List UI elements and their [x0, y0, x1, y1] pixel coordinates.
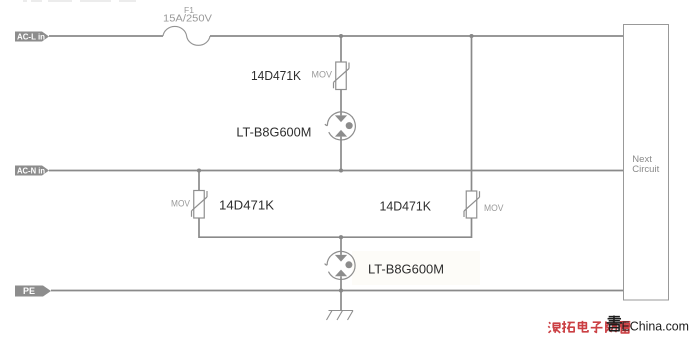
svg-text:15A/250V: 15A/250V [163, 13, 212, 24]
watermark tint patch [352, 251, 480, 285]
wire PE to ground [340, 291, 342, 311]
wire PE [51, 290, 624, 292]
block Next Circuit [624, 25, 669, 301]
artifact top edge [23, 0, 136, 2]
gas discharge tube GD2 [325, 251, 355, 279]
svg-text:LT-B8G600M: LT-B8G600M [236, 126, 311, 140]
svg-text:EChina.com: EChina.com [622, 319, 690, 334]
wire N column upper [198, 171, 200, 191]
wire AC-L right segment [210, 35, 624, 37]
junction PE / GD2 [339, 288, 343, 292]
svg-text:14D471K: 14D471K [251, 69, 302, 83]
svg-text:14D471K: 14D471K [219, 199, 275, 213]
net label AC-N in [15, 166, 49, 176]
svg-text:MOV: MOV [171, 198, 190, 208]
wire GDT2 to PE [340, 276, 342, 290]
varistor RV3 [464, 191, 480, 218]
svg-text:PE: PE [23, 286, 35, 296]
watermark black site [607, 316, 622, 331]
wire RV2 to bottom bus [199, 218, 341, 237]
wire L column upper [340, 36, 342, 62]
wire RV3 to bottom bus [341, 218, 472, 237]
ground [327, 311, 354, 321]
junction AC-N / RV2 [197, 168, 201, 172]
net label PE [15, 286, 51, 297]
net label AC-L in [15, 32, 49, 42]
svg-text:LT-B8G600M: LT-B8G600M [368, 262, 444, 276]
svg-text:AC-N in: AC-N in [17, 166, 45, 175]
svg-text:Circuit: Circuit [632, 164, 659, 175]
junction AC-L / RV3 [469, 34, 473, 38]
svg-text:14D471K: 14D471K [380, 200, 432, 214]
junction AC-N / GD1 [339, 168, 343, 172]
svg-text:MOV: MOV [484, 203, 504, 213]
junction bottom bus / GD2 [339, 235, 343, 239]
varistor RV1 [334, 62, 350, 90]
fuse F1 [163, 26, 210, 45]
watermark red CJK [548, 321, 630, 333]
gas discharge tube GD1 [325, 112, 355, 140]
varistor RV2 [192, 191, 208, 219]
wire AC-N [49, 170, 624, 172]
wire AC-L left segment [49, 35, 163, 37]
wire RV1 to GDT1 [340, 90, 342, 116]
wire L2 column [471, 36, 473, 191]
svg-text:AC-L in: AC-L in [17, 32, 45, 41]
svg-text:MOV: MOV [312, 70, 333, 80]
wire GDT1 to AC-N [340, 137, 342, 171]
junction AC-L / RV1 [339, 34, 343, 38]
wire bus to GDT2 [340, 237, 342, 255]
